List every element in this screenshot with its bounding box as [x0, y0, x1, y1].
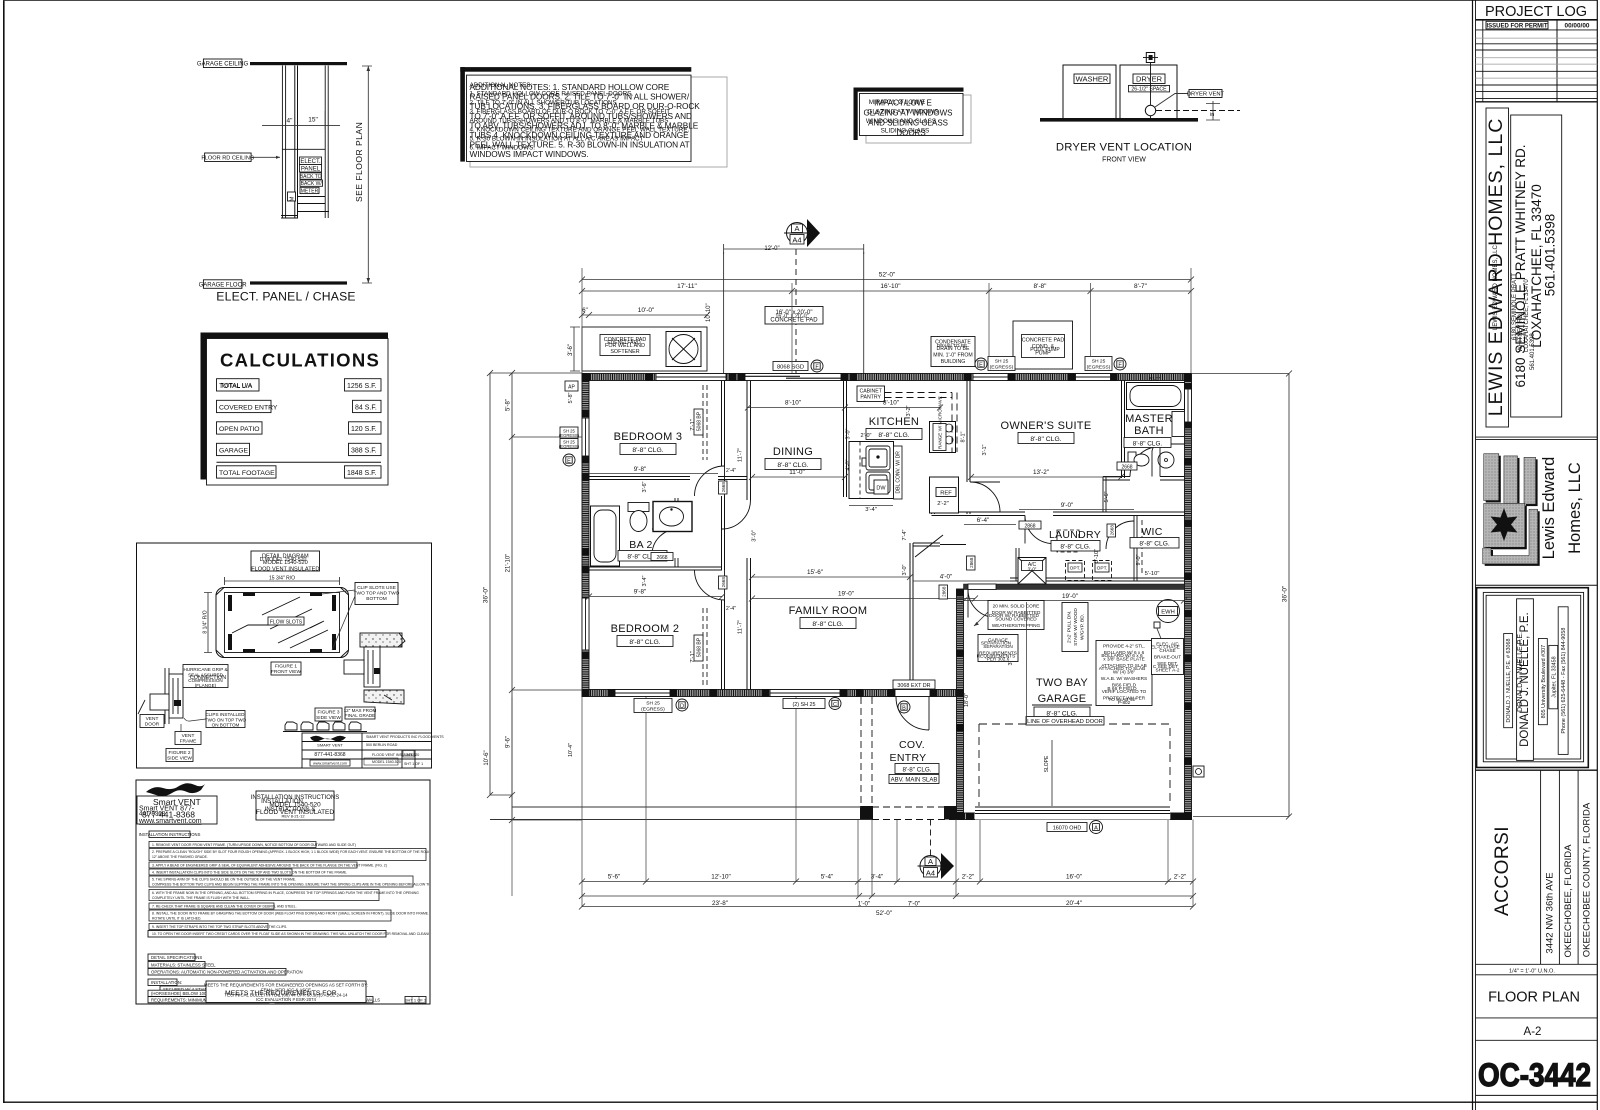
wall posts garage left and bottom — [956, 589, 1184, 820]
svg-text:A-2: A-2 — [1524, 1026, 1542, 1038]
room label two bay garage — [1032, 677, 1092, 718]
door laundry — [1025, 516, 1053, 544]
kitchen dw — [874, 480, 888, 494]
louver course row — [283, 722, 367, 732]
svg-text:OC-3442: OC-3442 — [1478, 1057, 1591, 1093]
small label 2868 hall — [967, 556, 976, 570]
figure2 label — [166, 749, 193, 762]
garage floor thick line — [250, 281, 347, 284]
vent dim top — [225, 577, 340, 585]
svg-text:ON BOTTOM: ON BOTTOM — [212, 723, 240, 728]
svg-text:3'-4": 3'-4" — [871, 874, 884, 881]
wall nook owners dark segment — [935, 477, 959, 480]
svg-text:EDENELFARD: EDENELFARD — [607, 340, 641, 346]
svg-text:1. REMOVE VENT DOOR FROM VEN: 1. REMOVE VENT DOOR FROM VENT FRAME. (TU… — [152, 843, 356, 847]
svg-text:WINDOWS AND GLASS: WINDOWS AND GLASS — [866, 118, 936, 125]
svg-text:(EGRESS): (EGRESS) — [990, 364, 1014, 370]
svg-text:6. IMPACT WINDOWS.: 6. IMPACT WINDOWS. — [470, 145, 536, 152]
svg-text:FIGURE 1: FIGURE 1 — [275, 664, 297, 670]
pad dim line 12-0 — [724, 244, 864, 254]
svg-text:WEATHERSTRIPPING: WEATHERSTRIPPING — [992, 623, 1041, 628]
detail panel border — [137, 543, 432, 768]
svg-text:8'-8" CLG.: 8'-8" CLG. — [629, 639, 660, 646]
svg-text:8068 SGD: 8068 SGD — [777, 365, 804, 371]
bottom wall window bed2 — [615, 690, 670, 697]
room label dining — [765, 446, 821, 470]
svg-text:SOFTENER: SOFTENER — [610, 349, 639, 355]
tag circle C — [829, 698, 841, 710]
svg-text:B: B — [902, 706, 906, 712]
dbl conv label — [894, 446, 903, 499]
svg-text:3068 EXT DR: 3068 EXT DR — [897, 683, 930, 689]
svg-text:OWNER'S SUITE: OWNER'S SUITE — [1001, 420, 1092, 432]
svg-text:8. INSTALL THE DOOR INTO FRA: 8. INSTALL THE DOOR INTO FRAME BY GRASPI… — [152, 912, 437, 916]
svg-text:6": 6" — [582, 308, 587, 314]
svg-text:A: A — [928, 857, 933, 866]
svg-text:2'-2": 2'-2" — [962, 874, 975, 881]
svg-text:BEDROOM 3: BEDROOM 3 — [614, 431, 683, 443]
tag 16070 ohd — [1047, 823, 1087, 832]
svg-text:500 BERLIN ROAD: 500 BERLIN ROAD — [366, 743, 398, 747]
svg-text:ISSUED FOR PERMIT: ISSUED FOR PERMIT — [1486, 23, 1547, 29]
svg-text:POOL PUMP: POOL PUMP — [1030, 347, 1060, 353]
svg-text:COMPRESS THE BOTTOM TWO CLIPS: COMPRESS THE BOTTOM TWO CLIPS AND BEGIN … — [152, 883, 467, 887]
svg-text:EL-C CHASE: EL-C CHASE — [1151, 645, 1180, 651]
elect panel label — [300, 157, 323, 194]
circle F marker right — [1114, 358, 1126, 370]
svg-text:2'-4": 2'-4" — [726, 606, 736, 612]
svg-text:FIGURE 3: FIGURE 3 — [317, 710, 339, 716]
svg-text:3'-1": 3'-1" — [982, 444, 988, 455]
notes box — [467, 75, 692, 161]
impact shadow bars — [854, 88, 964, 92]
dim left inner — [509, 370, 582, 823]
laundry machines dashed — [1057, 530, 1079, 552]
svg-text:SEE FLOOR PLAN: SEE FLOOR PLAN — [354, 122, 364, 202]
svg-text:DRYER VENT LOCATION: DRYER VENT LOCATION — [1056, 142, 1192, 154]
wall masterbath south — [1103, 477, 1185, 481]
tag 3068 ext dr — [893, 680, 935, 689]
svg-text:REQUIREMENTS: REQUIREMENTS — [977, 654, 1016, 660]
svg-text:www.smartvent.com: www.smartvent.com — [313, 762, 347, 766]
svg-text:COMPLETELY UNTIL THE FRAME IS: COMPLETELY UNTIL THE FRAME IS FLUSH WITH… — [152, 896, 250, 900]
wall bed3 ba2 — [589, 477, 747, 480]
circle F marker sgd — [811, 360, 823, 372]
room label owners suite — [1001, 420, 1092, 444]
note elec chase — [1151, 629, 1183, 675]
cabinet pantry — [857, 386, 885, 402]
svg-text:OPERATIONS: AUTOMATIC NON-POW: OPERATIONS: AUTOMATIC NON-POWERED ACTIVA… — [151, 970, 303, 975]
svg-text:www.smartvent.com: www.smartvent.com — [138, 818, 202, 825]
wall wic west — [1134, 516, 1137, 582]
svg-text:DONALD J. NUELLE P.E.: DONALD J. NUELLE P.E. — [1517, 632, 1524, 712]
tag circle E left — [563, 454, 575, 466]
dim interior 9-8 bed2 — [586, 594, 725, 600]
dim left outer 36-0 — [487, 370, 582, 798]
wall dining west — [747, 381, 751, 690]
small label 2668 masterbath door — [1117, 462, 1137, 470]
svg-text:9'-8": 9'-8" — [634, 589, 647, 596]
cov entry posts — [860, 806, 873, 820]
svg-text:5'-0": 5'-0" — [1149, 377, 1161, 383]
engineer license box — [1504, 634, 1513, 728]
wall kitchen west — [844, 381, 847, 498]
svg-text:9. INSERT THE TOP STRAPS INT: 9. INSERT THE TOP STRAPS INTO THE TOP TW… — [152, 925, 287, 929]
company overprint fragments — [1493, 245, 1536, 370]
svg-text:B 66 P FIELD: B 66 P FIELD — [1107, 686, 1137, 692]
wall bed3 closet front — [722, 381, 725, 690]
svg-text:00/00/00: 00/00/00 — [1565, 23, 1590, 30]
svg-text:REF: REF — [940, 491, 952, 497]
svg-text:DETAIL SPECIFICATIONS: DETAIL SPECIFICATIONS — [151, 955, 202, 960]
cov entry dashed columns lines — [861, 697, 956, 820]
svg-text:84 S.F.: 84 S.F. — [355, 404, 377, 411]
svg-text:5'-8": 5'-8" — [506, 399, 512, 411]
dim interior 13-2 owners — [968, 474, 1124, 480]
dim interior 3-4 sink — [849, 505, 893, 507]
svg-text:5'-4": 5'-4" — [821, 874, 834, 881]
svg-text:MIN. 1'-0" FROM: MIN. 1'-0" FROM — [933, 353, 972, 359]
svg-text:8'-8" CLG.: 8'-8" CLG. — [903, 766, 932, 773]
svg-text:7. RE-CHECK THAT FRAME IS SQ: 7. RE-CHECK THAT FRAME IS SQUARE AND CLE… — [152, 905, 297, 909]
svg-text:COV.: COV. — [899, 739, 925, 751]
figure3 vent stack — [344, 647, 380, 687]
border frame bottom — [3, 1102, 1597, 1103]
svg-text:1256 S.F.: 1256 S.F. — [347, 383, 377, 390]
door owners suite — [970, 482, 1000, 512]
room label family room — [789, 605, 868, 629]
dim bottom row1 — [579, 879, 1196, 885]
svg-text:INSTALLATION:: INSTALLATION: — [151, 980, 182, 985]
accorsi section divider — [1476, 769, 1598, 771]
install title box — [251, 791, 339, 820]
wall hall east — [910, 543, 913, 690]
logo square star — [1484, 503, 1525, 547]
installation block — [148, 979, 380, 1003]
top wall sliding door 8068 — [745, 374, 841, 381]
svg-text:PROJECT LOG: PROJECT LOG — [1485, 4, 1587, 20]
dim top 52-0 — [579, 277, 1194, 283]
floor rd ceiling label — [201, 153, 280, 162]
svg-text:15 3/4" R/O: 15 3/4" R/O — [269, 576, 295, 582]
svg-text:CLIPS INSTALLED:: CLIPS INSTALLED: — [205, 712, 246, 717]
dim interior 6-4 owners hall — [964, 524, 1016, 526]
washer label — [1074, 74, 1110, 84]
svg-text:10'-0": 10'-0" — [638, 307, 655, 314]
condensate label — [931, 337, 975, 367]
sheet box — [405, 997, 427, 1004]
concrete pad ac pump outline — [1013, 321, 1073, 369]
svg-text:M: M — [290, 196, 296, 201]
wall kitchen nook alcove — [932, 478, 935, 514]
chase left wall lines — [282, 66, 285, 219]
dim interior 19-0 garage — [961, 598, 1187, 604]
svg-text:1. STANDARD HOLLOW CORE RAISED: 1. STANDARD HOLLOW CORE RAISED PANEL DOO… — [470, 91, 634, 98]
svg-text:SLOPE: SLOPE — [1044, 755, 1050, 772]
logo bar3 — [1524, 457, 1536, 504]
upper cabinets dashed — [885, 393, 958, 453]
right wall window masterbath — [1185, 388, 1192, 422]
svg-text:3'-0": 3'-0" — [902, 564, 908, 575]
svg-text:5'-10": 5'-10" — [1145, 571, 1160, 577]
svg-text:ADDITIONAL NOTES:: ADDITIONAL NOTES: — [470, 82, 533, 89]
wall owners west — [967, 381, 970, 515]
svg-text:5. THE SPRING ARM OF THE CLI: 5. THE SPRING ARM OF THE CLIPS SHOULD BE… — [152, 878, 296, 882]
closet shelf dash bed2 — [703, 608, 707, 685]
svg-text:MASTER: MASTER — [1125, 413, 1173, 425]
garage entry door opening — [968, 584, 996, 590]
svg-text:15'-6": 15'-6" — [807, 569, 823, 576]
door bed2 — [695, 570, 725, 600]
svg-text:GARAGE CEILING: GARAGE CEILING — [197, 62, 249, 68]
patio slab lines — [490, 697, 872, 820]
svg-text:16'-10": 16'-10" — [880, 283, 901, 290]
garage overhead door opening sill — [975, 807, 1170, 820]
garage ceiling thick line — [250, 62, 347, 65]
figure3 concrete top — [360, 633, 405, 647]
svg-text:5'-6": 5'-6" — [608, 874, 621, 881]
svg-text:W/GYP. BD.: W/GYP. BD. — [1080, 614, 1086, 640]
svg-text:CONCRETE PAD: CONCRETE PAD — [1022, 338, 1065, 344]
logo bar2 shadow — [1506, 458, 1520, 506]
svg-text:COVERED ENTRY: COVERED ENTRY — [219, 404, 278, 411]
dryer baseline — [1040, 118, 1198, 122]
room label bedroom2 — [611, 623, 680, 647]
company name box — [1486, 108, 1509, 427]
accorsi dividers vertical — [1541, 770, 1579, 964]
svg-text:ACCORSI: ACCORSI — [1492, 826, 1513, 916]
svg-text:2'-2": 2'-2" — [937, 501, 949, 507]
hurricane grip label — [183, 665, 228, 689]
svg-text:19'-0": 19'-0" — [1062, 593, 1078, 600]
svg-text:ABV. MAIN SLAB: ABV. MAIN SLAB — [891, 778, 938, 784]
room label bedroom3 — [614, 431, 683, 455]
svg-text:OKEECHOBEE COUNTY, FLORIDA: OKEECHOBEE COUNTY, FLORIDA — [1582, 802, 1593, 957]
wall hall jog — [913, 543, 940, 546]
svg-text:120 S.F.: 120 S.F. — [351, 426, 377, 433]
svg-text:MEETS THE REQUIREMENTS FOR: MEETS THE REQUIREMENTS FOR — [225, 990, 337, 997]
sgd 8068 label — [773, 362, 808, 371]
svg-text:23'-8": 23'-8" — [712, 900, 728, 907]
overhead door dashed outline — [979, 724, 1170, 806]
tag left wall labels — [559, 427, 580, 449]
small label 2668 bed2 door — [719, 576, 728, 589]
svg-text:21'-10": 21'-10" — [506, 554, 512, 573]
detail title box — [251, 551, 320, 572]
pocket door laundry entry — [915, 535, 966, 557]
mini titleblock — [302, 733, 432, 768]
border frame top — [3, 0, 1597, 2]
svg-text:3'-4": 3'-4" — [865, 507, 877, 513]
svg-text:10. TO OPEN THE DOOR INSERT: 10. TO OPEN THE DOOR INSERT TWO CREDIT C… — [152, 932, 435, 936]
smartvent logo text — [138, 797, 202, 825]
svg-text:1/4" = 1'-0" U.N.O.: 1/4" = 1'-0" U.N.O. — [1509, 968, 1555, 974]
wall masterbath west — [1122, 381, 1125, 479]
logo bar3 shadow — [1526, 459, 1538, 506]
svg-text:A4: A4 — [792, 236, 801, 245]
room label cov entry — [889, 739, 939, 784]
svg-text:OKEECHOBEE, FLORIDA: OKEECHOBEE, FLORIDA — [1563, 844, 1574, 958]
dim interior 4-0 hall — [913, 580, 1016, 582]
svg-text:WASHER: WASHER — [1076, 75, 1109, 84]
svg-text:LINE OF OVERHEAD DOOR: LINE OF OVERHEAD DOOR — [1027, 719, 1103, 725]
svg-text:in: in — [1210, 112, 1214, 118]
door garage entry — [968, 590, 996, 618]
svg-text:36'-0": 36'-0" — [1282, 585, 1289, 602]
engineer address box2 — [1549, 645, 1558, 708]
dim interior 9-8 bed3 — [589, 473, 718, 475]
svg-text:FLOOR RD CEILING: FLOOR RD CEILING — [201, 156, 254, 162]
svg-text:11'-0": 11'-0" — [789, 469, 805, 476]
engineer name box — [1517, 599, 1534, 761]
titleblock borders — [1473, 0, 1598, 1110]
svg-text:4'-0": 4'-0" — [846, 459, 852, 470]
grade label — [344, 707, 377, 719]
svg-text:(EGRESS): (EGRESS) — [641, 707, 665, 713]
impact text overprint — [866, 99, 939, 135]
svg-text:2668: 2668 — [721, 482, 726, 493]
logo bar2 — [1504, 456, 1518, 504]
svg-text:SIDE VIEW: SIDE VIEW — [316, 715, 341, 721]
right dim line — [362, 66, 372, 283]
washer box — [1063, 65, 1116, 119]
svg-text:20'-4": 20'-4" — [1066, 900, 1082, 907]
svg-text:9'-8": 9'-8" — [634, 466, 647, 473]
panel area inner lines — [298, 149, 326, 203]
svg-text:CLIP SLOTS USE: CLIP SLOTS USE — [357, 585, 396, 591]
svg-text:5. R-30 BLOWN-IN INSULATION AT: 5. R-30 BLOWN-IN INSULATION AT ALL A/C A… — [470, 136, 644, 143]
smartvent logo flag — [146, 783, 205, 796]
elec meter symbol right wall — [1193, 766, 1204, 777]
svg-text:D: D — [680, 704, 684, 710]
detail specifications block — [148, 954, 303, 975]
svg-text:3. APPLY A BEAD OF ENGINEERE: 3. APPLY A BEAD OF ENGINEERED GRIP & SEA… — [152, 864, 387, 868]
install panel border — [136, 780, 430, 1004]
ewh water heater — [1157, 600, 1180, 623]
left wall window bed2 — [582, 598, 589, 650]
company address box — [1511, 115, 1562, 417]
svg-text:HURRICANE GRIP &: HURRICANE GRIP & — [183, 667, 227, 672]
svg-text:441-8368: 441-8368 — [139, 811, 166, 818]
note garage separation — [977, 635, 1018, 662]
svg-text:TOTAL FOOTAGE: TOTAL FOOTAGE — [219, 470, 275, 477]
svg-text:8'-10": 8'-10" — [785, 400, 801, 407]
wall laundry wic south — [1010, 578, 1185, 581]
panel symbol garage right — [1154, 622, 1160, 628]
svg-text:(2) SH 25: (2) SH 25 — [792, 702, 815, 708]
notes text layer big — [470, 82, 701, 159]
notes shadow bars — [460, 67, 691, 72]
wall posts right — [1184, 383, 1192, 820]
svg-text:4'-0": 4'-0" — [940, 574, 953, 581]
tag circle B — [898, 701, 910, 713]
svg-text:C: C — [833, 702, 837, 708]
svg-text:5'-10": 5'-10" — [1094, 549, 1100, 563]
svg-text:SLIDING GLASS: SLIDING GLASS — [881, 128, 930, 135]
svg-text:A4: A4 — [926, 869, 935, 878]
impact ghost shadow — [866, 95, 971, 143]
svg-text:3'-6": 3'-6" — [568, 344, 574, 356]
svg-text:E: E — [567, 459, 571, 465]
svg-text:SH 25: SH 25 — [646, 701, 660, 707]
svg-text:W.A.B. W/ WASHERS: W.A.B. W/ WASHERS — [1101, 676, 1147, 681]
garage floor label — [199, 280, 248, 289]
figure3 label — [315, 708, 342, 721]
ba2 vanity — [653, 502, 692, 532]
svg-text:ELECT. PANEL / CHASE: ELECT. PANEL / CHASE — [216, 290, 355, 304]
svg-text:12'-10": 12'-10" — [711, 874, 731, 881]
room label master bath — [1124, 413, 1173, 448]
svg-text:8'-10": 8'-10" — [883, 400, 899, 407]
small label 2868 owners door — [1019, 521, 1041, 529]
masterbath vanity — [1152, 444, 1185, 477]
svg-text:BA 2: BA 2 — [629, 539, 652, 551]
small label 5068 BP bed3 closet — [694, 409, 703, 435]
svg-text:Lewis Edward: Lewis Edward — [1540, 457, 1558, 560]
dim bottom extension verticals — [512, 697, 1193, 907]
svg-text:6'-4": 6'-4" — [977, 517, 990, 524]
left exterior wall — [582, 374, 589, 697]
dim right 36-0 — [1191, 371, 1292, 820]
dim interior 11-0 dining — [749, 474, 848, 480]
top exterior wall — [582, 374, 1191, 381]
wall posts top — [582, 373, 1192, 381]
impact text big — [863, 99, 952, 138]
svg-text:LAUNDRY: LAUNDRY — [1049, 529, 1101, 541]
dim top row3 left — [579, 312, 710, 318]
install header small box — [139, 831, 201, 838]
svg-text:FINAL GRADE: FINAL GRADE — [345, 713, 375, 718]
svg-text:INSTALLATION: INSTALLATION — [261, 799, 303, 805]
svg-text:TOTAL U/A: TOTAL U/A — [221, 383, 254, 390]
svg-text:5'-8": 5'-8" — [568, 392, 574, 403]
svg-text:LEWIS EDWARD HOMES, LLC: LEWIS EDWARD HOMES, LLC — [1493, 245, 1499, 330]
vent dim left — [204, 593, 212, 653]
wall laundry west — [1016, 548, 1019, 581]
svg-text:2'-2": 2'-2" — [1174, 874, 1187, 881]
engineer outer boxes — [1477, 588, 1589, 768]
svg-text:MATERIALS: STAINLESS STEEL: MATERIALS: STAINLESS STEEL — [151, 963, 216, 968]
svg-text:A: A — [794, 224, 799, 233]
svg-text:OPT.: OPT. — [1097, 566, 1108, 572]
sh25 egress label left — [988, 357, 1015, 371]
svg-text:DINING: DINING — [773, 446, 813, 458]
figure2 side view drawing — [138, 668, 183, 724]
svg-text:5068 BP: 5068 BP — [697, 411, 703, 431]
svg-text:3'-0": 3'-0" — [846, 428, 852, 439]
svg-text:ROTATE UNTIL IT IS LATCHED.: ROTATE UNTIL IT IS LATCHED. — [152, 917, 201, 921]
svg-text:FLOOR PLAN: FLOOR PLAN — [1488, 990, 1580, 1006]
svg-text:9'-6": 9'-6" — [506, 736, 512, 748]
svg-text:SMART VENT PRODUCTS INC FLOOD: SMART VENT PRODUCTS INC FLOOD VENTS — [366, 735, 444, 739]
vent door label — [140, 715, 164, 728]
svg-text:METER: METER — [301, 188, 319, 194]
note pull down stair — [1062, 603, 1088, 652]
circle E marker left — [975, 358, 987, 370]
svg-text:BACK W/: BACK W/ — [301, 181, 323, 187]
figure1 label — [271, 662, 301, 675]
svg-text:DRYER VENT: DRYER VENT — [1187, 92, 1225, 98]
svg-text:8'-8" CLG.: 8'-8" CLG. — [812, 621, 843, 628]
svg-text:FRONT VIEW: FRONT VIEW — [271, 669, 301, 675]
tag circle A — [1090, 821, 1103, 834]
svg-text:8'-8" CLG.: 8'-8" CLG. — [1133, 440, 1163, 447]
svg-text:FLOOD VENT INSULATED: FLOOD VENT INSULATED — [251, 566, 319, 572]
logo Lshape — [1483, 509, 1538, 564]
border frame left — [3, 0, 5, 1103]
svg-text:3'-6": 3'-6" — [642, 481, 648, 492]
svg-text:DRAIN TO BE: DRAIN TO BE — [937, 343, 967, 349]
